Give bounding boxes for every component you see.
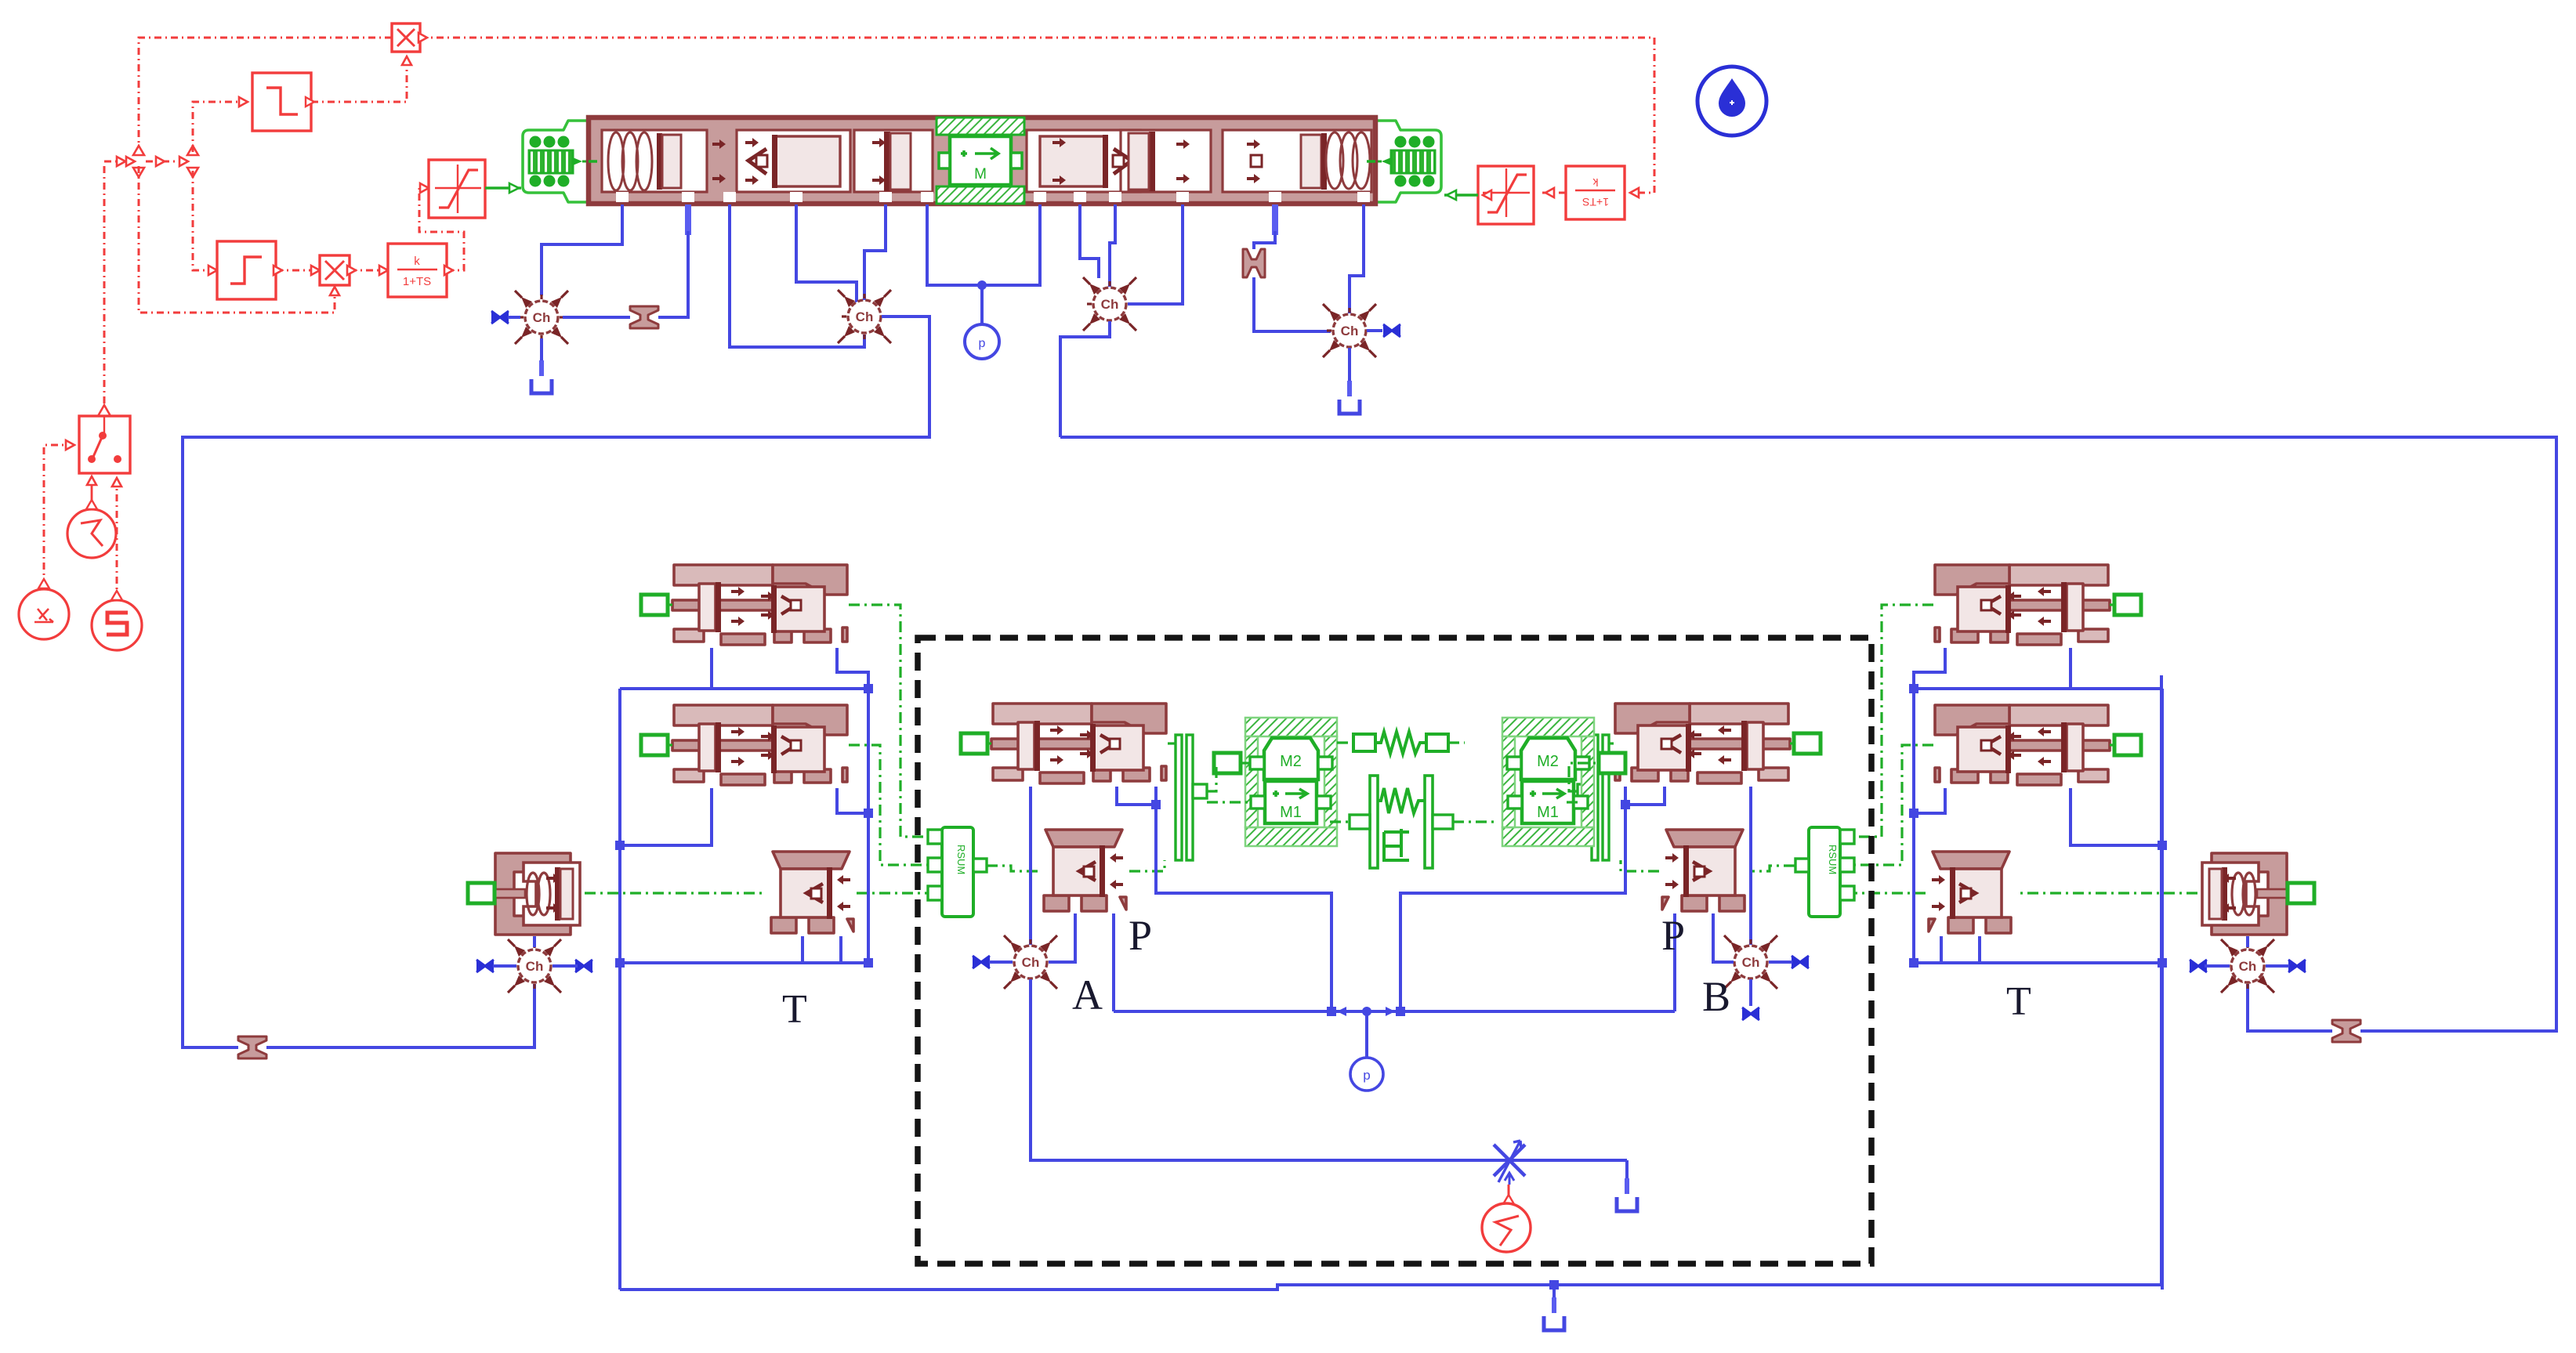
svg-text:M2: M2 — [1537, 753, 1559, 770]
svg-text:RSUM: RSUM — [955, 845, 967, 874]
svg-text:1+TS: 1+TS — [403, 275, 431, 288]
svg-text:P: P — [1129, 912, 1152, 959]
svg-text:p: p — [979, 337, 986, 350]
svg-text:A: A — [1072, 971, 1103, 1018]
svg-text:B: B — [1702, 973, 1730, 1020]
svg-text:M: M — [974, 166, 987, 183]
svg-text:M2: M2 — [1280, 753, 1302, 770]
svg-text:T: T — [782, 987, 807, 1032]
svg-text:T: T — [2006, 979, 2031, 1024]
svg-text:M1: M1 — [1280, 804, 1302, 821]
svg-text:M1: M1 — [1537, 804, 1559, 821]
svg-text:p: p — [1363, 1068, 1370, 1083]
svg-text:k: k — [414, 255, 420, 268]
svg-text:1+TS: 1+TS — [1582, 196, 1609, 208]
svg-text:P: P — [1661, 912, 1685, 959]
svg-text:RSUM: RSUM — [1827, 845, 1839, 874]
svg-text:k: k — [1592, 176, 1599, 189]
svg-text:Ch: Ch — [2239, 959, 2257, 974]
